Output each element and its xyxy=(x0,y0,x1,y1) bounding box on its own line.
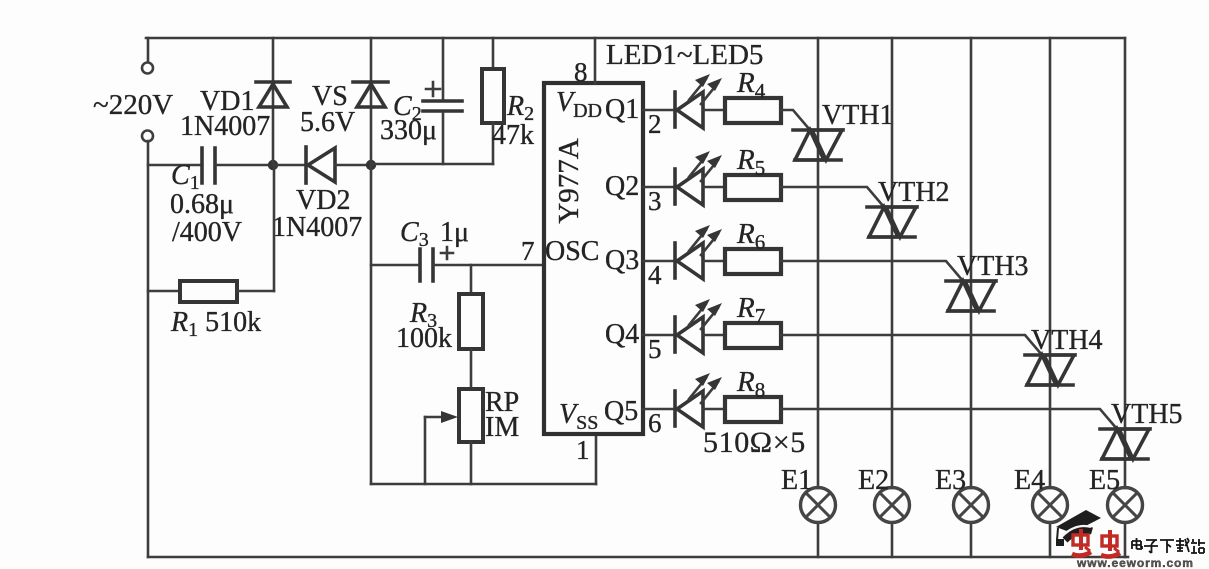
wire top supply rail xyxy=(146,37,1125,40)
wire LED5 to R8 xyxy=(703,408,725,411)
svg-text:6: 6 xyxy=(648,408,662,438)
label E3 xyxy=(935,465,966,496)
svg-text:Q3: Q3 xyxy=(605,245,639,276)
LED5 xyxy=(675,373,722,427)
wire C3 row left xyxy=(371,264,419,267)
wire pin 6 stub (Q5) xyxy=(643,408,674,411)
wire column VTH2/E2 xyxy=(891,38,894,557)
capacitor C1 xyxy=(202,148,215,183)
wire node B to R2 bottom xyxy=(371,163,493,166)
svg-text:E4: E4 xyxy=(1014,465,1045,496)
wire R5 to VTH2 gate xyxy=(781,187,884,207)
label pin 6 xyxy=(648,408,662,438)
resistor R1 xyxy=(148,165,274,302)
node A junction dot xyxy=(268,160,278,170)
capacitor C3 xyxy=(420,247,453,281)
wire column VTH5/E5 xyxy=(1124,38,1127,557)
wire LED2 to R5 xyxy=(703,186,725,189)
label R7 xyxy=(736,292,765,328)
label VTH5 xyxy=(1111,399,1183,430)
svg-text:VTH1: VTH1 xyxy=(822,100,894,131)
svg-text:4: 4 xyxy=(648,260,662,290)
label VTH4 xyxy=(1031,325,1103,356)
resistor R6 xyxy=(725,249,781,274)
svg-text:C3: C3 xyxy=(400,217,429,251)
diode VD1 xyxy=(256,38,290,165)
wire R8 to VTH5 gate xyxy=(781,409,1117,429)
wire pin 3 stub (Q2) xyxy=(643,186,674,189)
svg-text:330μ: 330μ xyxy=(380,115,437,146)
svg-text:2: 2 xyxy=(648,109,662,139)
wire R6 to VTH3 gate xyxy=(781,261,963,281)
label R8 xyxy=(736,366,765,402)
svg-text:~220V: ~220V xyxy=(93,89,173,121)
label R1 510k xyxy=(170,307,261,341)
svg-text:www.eeworm.com: www.eeworm.com xyxy=(1076,556,1194,569)
resistor R3 xyxy=(459,294,483,349)
LED3 xyxy=(675,225,722,279)
wire pin 8 stub xyxy=(594,38,597,83)
label pin 3 xyxy=(648,186,662,216)
svg-text:47k: 47k xyxy=(492,120,534,151)
label E4 xyxy=(1014,465,1045,496)
label pin 7 xyxy=(521,236,535,266)
svg-text:Q1: Q1 xyxy=(605,94,639,125)
wire pin 2 stub (Q1) xyxy=(643,109,674,112)
wire LED4 to R7 xyxy=(703,334,725,337)
lamp E1 xyxy=(801,488,836,523)
wire R7 to VTH4 gate xyxy=(781,335,1042,355)
label pin 4 xyxy=(648,260,662,290)
svg-text:E5: E5 xyxy=(1089,465,1120,496)
svg-text:VTH5: VTH5 xyxy=(1111,399,1183,430)
label R3 100k xyxy=(396,298,452,354)
label R6 xyxy=(736,218,765,254)
svg-text:/400V: /400V xyxy=(172,217,242,248)
wire pin 5 stub (Q4) xyxy=(643,334,674,337)
wire left edge vertical xyxy=(147,141,150,557)
label VTH1 xyxy=(822,100,894,131)
svg-text:R5: R5 xyxy=(736,144,765,180)
terminal upper ~220V input xyxy=(142,38,153,74)
wire R4 to VTH1 gate xyxy=(781,110,810,130)
label C2 330u xyxy=(380,91,437,146)
wire VD2 to node B xyxy=(335,164,371,167)
svg-text:1N4007: 1N4007 xyxy=(272,212,362,243)
svg-text:VTH4: VTH4 xyxy=(1031,325,1103,356)
resistor R2 xyxy=(482,38,504,164)
diode VD2 xyxy=(306,147,335,183)
svg-text:1N4007: 1N4007 xyxy=(180,111,270,142)
label R4 xyxy=(736,67,766,103)
svg-text:8: 8 xyxy=(574,57,588,87)
triac VTH4 xyxy=(1025,355,1075,385)
svg-text:R8: R8 xyxy=(736,366,765,402)
wire pin 4 stub (Q3) xyxy=(643,260,674,263)
resistor R5 xyxy=(725,175,781,200)
label 510ohm x5 xyxy=(703,426,806,459)
svg-text:E2: E2 xyxy=(858,465,889,496)
svg-text:IM: IM xyxy=(485,412,519,443)
svg-text:Q5: Q5 xyxy=(604,396,638,427)
svg-text:5.6V: 5.6V xyxy=(300,107,355,138)
svg-text:7: 7 xyxy=(521,236,535,266)
label VS 5.6V xyxy=(300,81,355,138)
wire pin 1 stub xyxy=(595,434,598,484)
label pin 5 xyxy=(648,334,662,364)
wire C1 to node A xyxy=(216,164,273,167)
triac VTH3 xyxy=(946,281,996,311)
svg-text:1μ: 1μ xyxy=(440,217,469,248)
svg-text:R7: R7 xyxy=(736,292,765,328)
wire column VTH3/E3 xyxy=(970,38,973,557)
resistor R4 xyxy=(725,98,781,123)
wire bottom rail xyxy=(148,556,1128,559)
label R2 47k xyxy=(492,91,534,151)
IC U1 labels xyxy=(545,87,639,434)
capacitor C2 xyxy=(423,38,462,164)
label VTH2 xyxy=(878,177,950,208)
label C3 1u xyxy=(400,217,469,251)
lamp E5 xyxy=(1108,488,1143,523)
wire column VTH4/E4 xyxy=(1049,38,1052,557)
wire LED1 to R4 xyxy=(703,109,725,112)
svg-text:0.68μ: 0.68μ xyxy=(170,189,234,220)
svg-text:Y977A: Y977A xyxy=(553,138,585,223)
wire node B down to RC loop xyxy=(370,165,373,484)
zener VS xyxy=(353,38,388,165)
wire C3 to pin7 xyxy=(434,264,544,267)
svg-text:R1 510k: R1 510k xyxy=(170,307,261,341)
svg-text:Q2: Q2 xyxy=(605,171,639,202)
svg-text:VTH2: VTH2 xyxy=(878,177,950,208)
svg-text:VTH3: VTH3 xyxy=(957,251,1029,282)
node B junction dot xyxy=(366,160,376,170)
resistor R8 xyxy=(725,397,781,422)
label pin 1 xyxy=(576,435,590,465)
LED1 xyxy=(675,74,722,128)
label E1 xyxy=(781,465,812,496)
lamp E4 xyxy=(1033,488,1068,523)
label LED1~LED5 xyxy=(606,39,763,71)
LED4 xyxy=(675,299,722,353)
lamp E2 xyxy=(875,488,910,523)
wire LED3 to R6 xyxy=(703,260,725,263)
label VTH3 xyxy=(957,251,1029,282)
svg-text:5: 5 xyxy=(648,334,662,364)
label pin 8 xyxy=(574,57,588,87)
label pin 2 xyxy=(648,109,662,139)
svg-text:1: 1 xyxy=(576,435,590,465)
potentiometer RP xyxy=(425,389,483,484)
triac VTH2 xyxy=(867,207,917,237)
wire branch down to R3 xyxy=(470,265,473,294)
triac VTH1 xyxy=(793,130,843,160)
svg-text:OSC: OSC xyxy=(545,236,599,267)
label VD1 1N4007 xyxy=(180,86,270,142)
label E5 xyxy=(1089,465,1120,496)
triac VTH5 xyxy=(1100,429,1150,459)
lamp E3 xyxy=(954,488,989,523)
label VD2 1N4007 xyxy=(272,185,362,243)
wire node A to VD2 xyxy=(273,164,306,167)
svg-text:E3: E3 xyxy=(935,465,966,496)
svg-text:3: 3 xyxy=(648,186,662,216)
svg-text:510Ω×5: 510Ω×5 xyxy=(703,426,806,459)
label C1 value xyxy=(170,160,242,248)
resistor R7 xyxy=(725,323,781,348)
svg-text:Q4: Q4 xyxy=(605,319,639,350)
LED2 xyxy=(675,151,722,205)
wire column VTH1/E1 xyxy=(817,38,820,557)
label E2 xyxy=(858,465,889,496)
svg-text:R6: R6 xyxy=(736,218,765,254)
wire C1 row left xyxy=(148,164,201,167)
label R5 xyxy=(736,144,765,180)
wire bottom RC loop xyxy=(371,483,596,486)
svg-text:100k: 100k xyxy=(396,323,452,354)
IC U1 Y977A body xyxy=(544,83,643,434)
terminal lower ~220V input xyxy=(142,131,153,142)
svg-text:VDD: VDD xyxy=(556,87,602,122)
svg-text:VSS: VSS xyxy=(559,399,598,434)
svg-text:R4: R4 xyxy=(736,67,766,103)
wire R3 to RP xyxy=(470,349,473,389)
svg-text:E1: E1 xyxy=(781,465,812,496)
label ~220V xyxy=(93,89,173,121)
label RP 1M xyxy=(485,387,519,443)
